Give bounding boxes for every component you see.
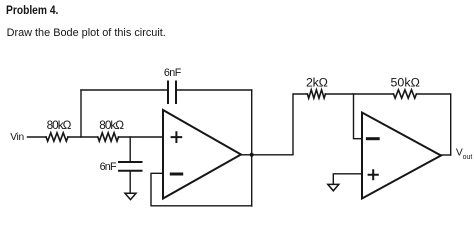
label C1 6nF <box>164 67 182 79</box>
wire Vin to R1 <box>28 136 47 138</box>
wire U1 inverting input follower loop <box>151 173 252 206</box>
label C2 6nF <box>100 161 117 173</box>
capacitor C2 6nF plates <box>119 162 142 171</box>
capacitor C1 6nF plates <box>168 82 176 104</box>
svg-text:2kΩ: 2kΩ <box>306 75 328 89</box>
op-amp U1 triangle <box>163 110 241 199</box>
wire C2 to ground <box>129 172 131 194</box>
wire U2 output <box>441 154 451 156</box>
wire top feedback left segment node A to C1 <box>81 89 168 91</box>
resistor R2 80k zigzag <box>98 133 119 141</box>
resistor R1 80k zigzag <box>46 133 68 141</box>
wire U2 noninverting input to ground <box>333 174 362 184</box>
svg-text:6nF: 6nF <box>100 161 117 173</box>
label R2 80kOhm <box>99 118 124 132</box>
node Vout label <box>456 148 472 161</box>
node output junction dot <box>250 153 254 157</box>
wire top feedback right segment C1 to output node <box>176 89 252 91</box>
wire U1 output to node <box>241 154 252 156</box>
ground GND2 triangle <box>328 184 339 190</box>
svg-text:Vin: Vin <box>10 132 23 143</box>
wire stage1 output to stage2 top <box>252 94 308 155</box>
op-amp U1 plus sign <box>172 132 182 142</box>
wire R3 to node C and to R4 <box>325 93 393 95</box>
label R3 2kOhm <box>306 75 328 89</box>
op-amp U2 plus sign <box>369 170 378 179</box>
wire R1 to R2 through node A <box>68 136 98 138</box>
op-amp U2 minus sign <box>367 137 378 140</box>
wire R2 to op-amp U1 plus input, through node B <box>119 136 164 138</box>
wire R4 to feedback right vertical down to output <box>416 94 450 155</box>
svg-text:80kΩ: 80kΩ <box>47 118 72 132</box>
node Vin label <box>10 132 23 143</box>
op-amp U1 minus sign <box>171 173 181 176</box>
node C tap wire down to U2 inverting input <box>354 94 363 139</box>
svg-text:out: out <box>463 154 473 161</box>
wire feedback right vertical through output node <box>251 90 253 206</box>
svg-text:6nF: 6nF <box>164 67 182 79</box>
node B tap wire down to C2 <box>129 137 131 162</box>
op-amp U2 triangle <box>362 113 441 199</box>
title "Problem 4." <box>6 3 58 17</box>
resistor R3 2k zigzag <box>307 90 325 98</box>
label R1 80kOhm <box>47 118 72 132</box>
ground GND1 triangle <box>125 193 136 199</box>
resistor R4 50k zigzag <box>394 90 417 98</box>
svg-text:50kΩ: 50kΩ <box>390 75 419 89</box>
label R4 50kOhm <box>390 75 419 89</box>
node A tap wire up to feedback <box>80 90 82 137</box>
prompt "Draw the Bode plot of this circuit." <box>7 27 166 39</box>
svg-text:80kΩ: 80kΩ <box>99 118 124 132</box>
